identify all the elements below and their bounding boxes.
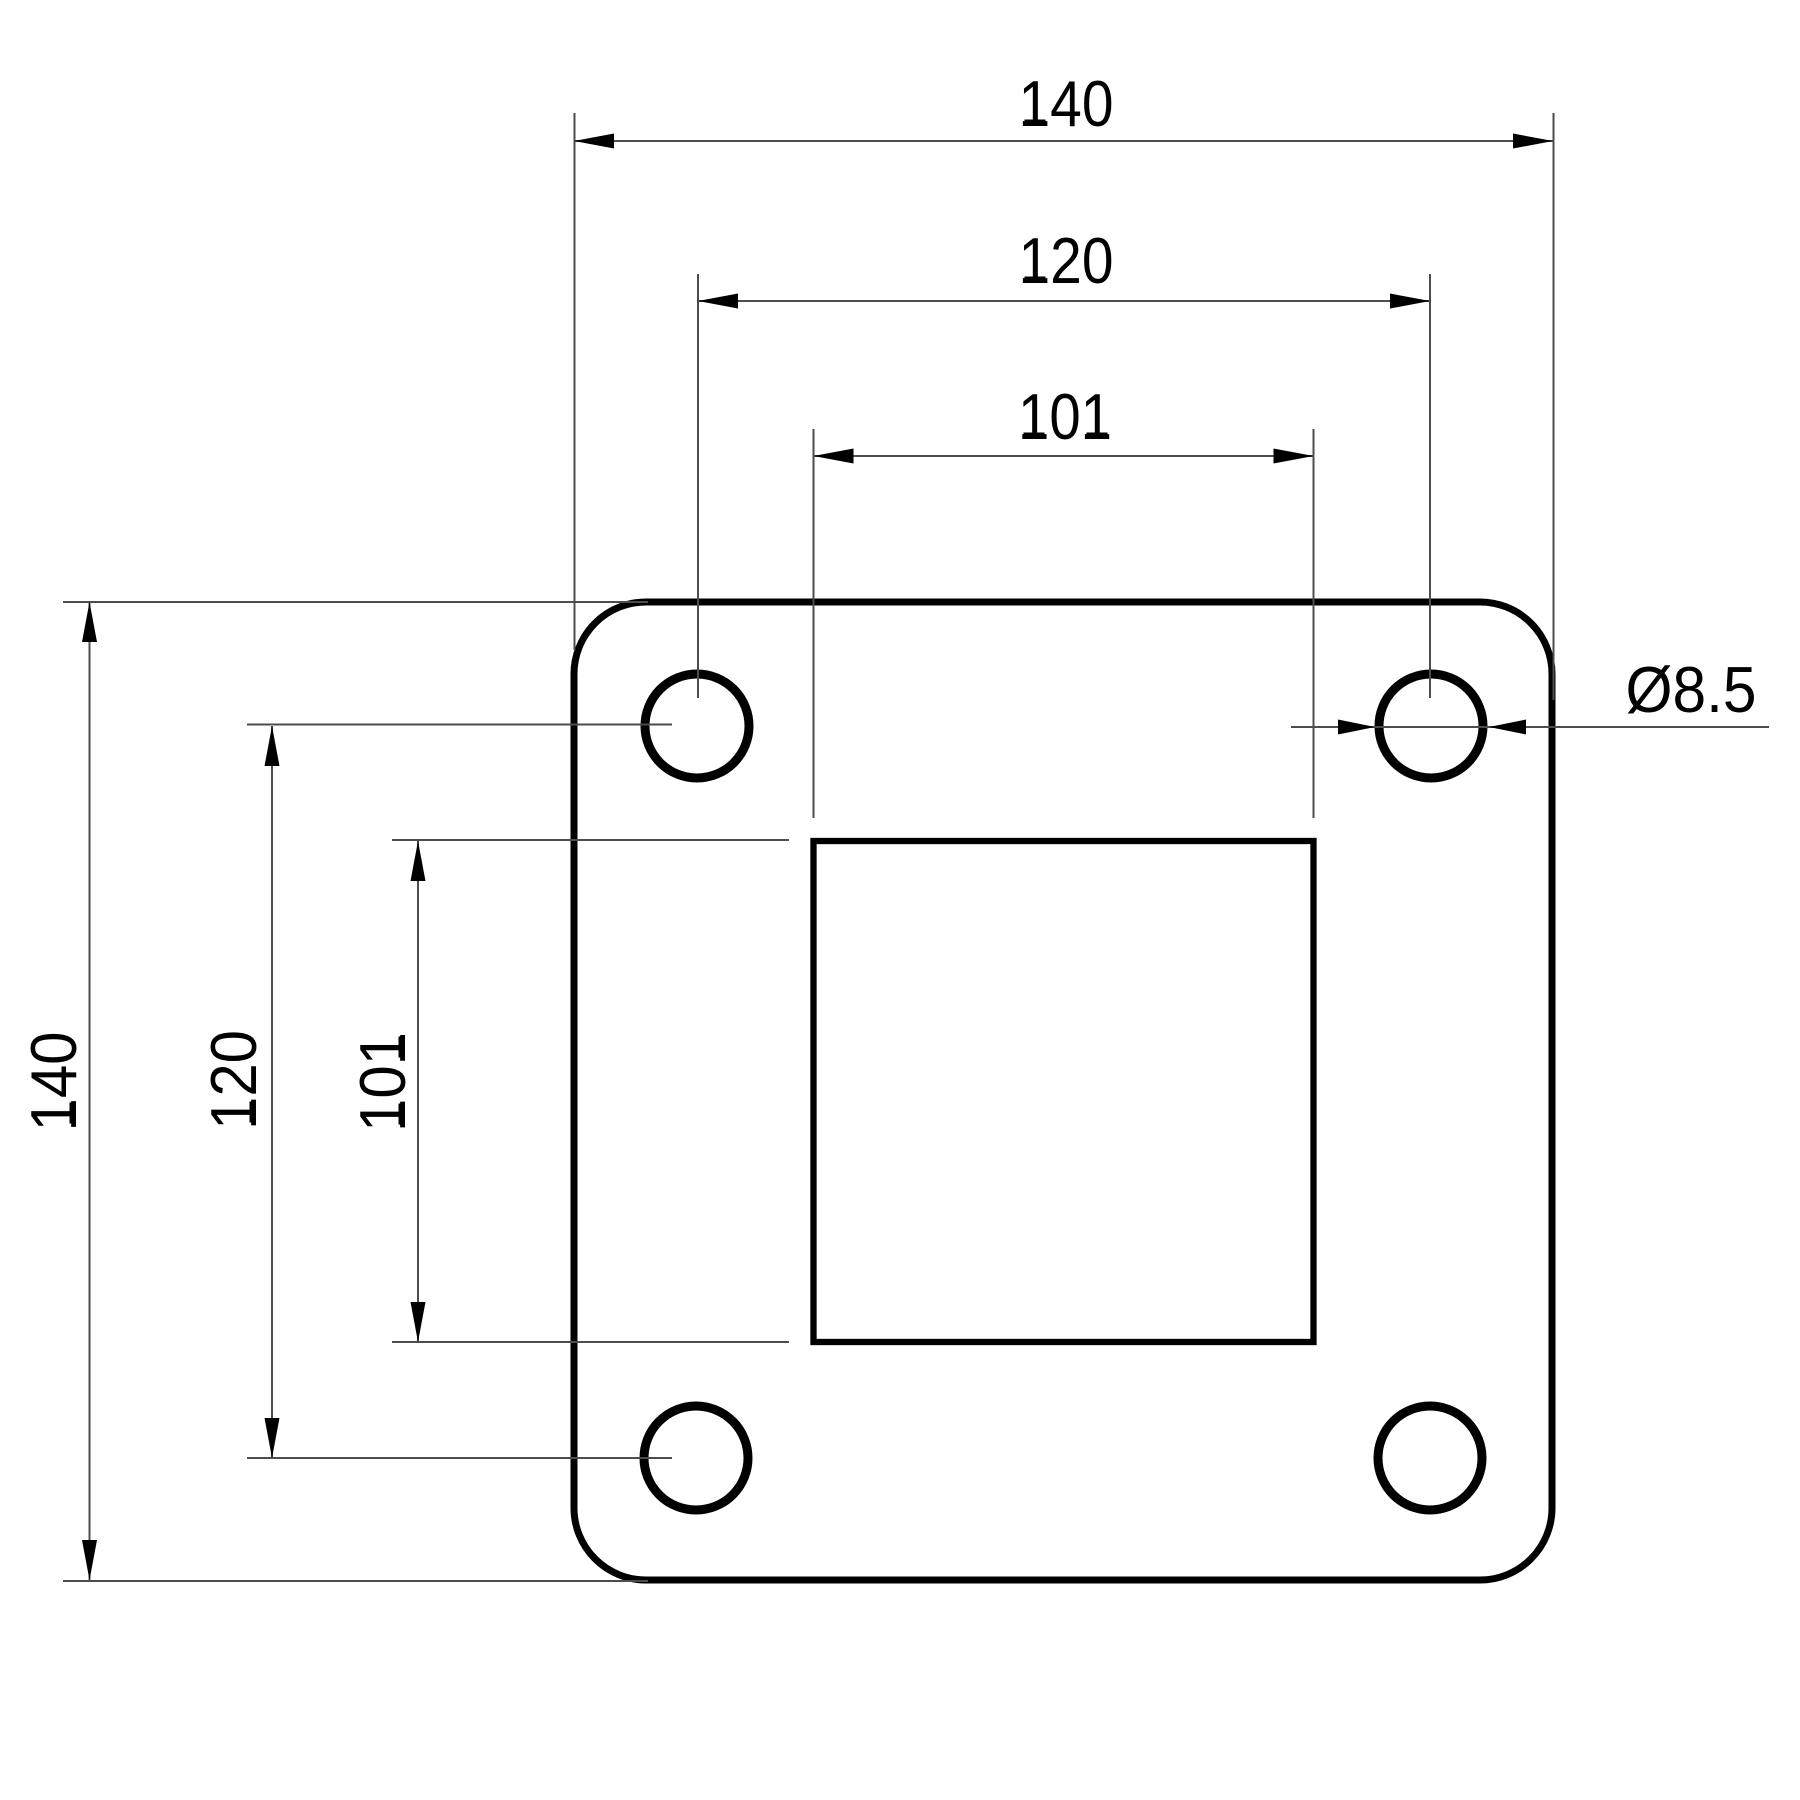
svg-text:Ø8.5: Ø8.5 bbox=[1626, 653, 1757, 726]
extension line left of dim 101 horizontal bbox=[813, 429, 815, 818]
extension line left of dim 120 horizontal bbox=[697, 274, 699, 698]
arrow left 120 horizontal bbox=[698, 294, 738, 309]
arrow top 120 vertical bbox=[265, 726, 280, 766]
svg-text:140: 140 bbox=[1019, 67, 1114, 140]
arrow right diameter 8.5 bbox=[1489, 720, 1526, 735]
extension line left of dim 140 horizontal bbox=[574, 113, 576, 650]
dimension line 101 horizontal bbox=[814, 455, 1314, 457]
arrow top 140 vertical bbox=[82, 602, 97, 642]
arrow left diameter 8.5 bbox=[1338, 720, 1375, 735]
bolt hole top-right bbox=[1379, 674, 1483, 778]
arrow right 140 horizontal bbox=[1513, 134, 1553, 149]
extension line top of dim 101 vertical bbox=[392, 839, 789, 841]
svg-text:140: 140 bbox=[17, 1032, 90, 1132]
dimension line 140 vertical bbox=[89, 602, 91, 1580]
svg-text:120: 120 bbox=[1019, 224, 1114, 297]
bolt hole bottom-right bbox=[1378, 1406, 1482, 1510]
dimension line 120 horizontal bbox=[698, 300, 1430, 302]
arrow right 101 horizontal bbox=[1274, 449, 1314, 464]
svg-text:101: 101 bbox=[346, 1032, 419, 1132]
arrow right 120 horizontal bbox=[1390, 294, 1430, 309]
square hole bbox=[814, 841, 1314, 1342]
dimension line 120 vertical bbox=[271, 726, 273, 1458]
bolt hole bottom-left bbox=[644, 1406, 748, 1510]
extension line right of dim 101 horizontal bbox=[1313, 429, 1315, 818]
dimension line 101 vertical bbox=[417, 841, 419, 1342]
svg-text:120: 120 bbox=[197, 1030, 270, 1130]
svg-text:101: 101 bbox=[1018, 380, 1112, 453]
extension line top of dim 120 vertical bbox=[247, 724, 672, 726]
extension line bottom of dim 140 vertical bbox=[63, 1580, 648, 1582]
leader line diameter 8.5 bbox=[1291, 726, 1769, 728]
arrow top 101 vertical bbox=[411, 841, 426, 881]
extension line top of dim 140 vertical bbox=[63, 601, 648, 603]
arrow left 140 horizontal bbox=[574, 134, 614, 149]
arrow bottom 120 vertical bbox=[265, 1418, 280, 1458]
arrow left 101 horizontal bbox=[814, 449, 854, 464]
extension line right of dim 140 horizontal bbox=[1553, 113, 1555, 700]
arrow bottom 140 vertical bbox=[82, 1540, 97, 1580]
arrow bottom 101 vertical bbox=[411, 1302, 426, 1342]
extension line bottom of dim 101 vertical bbox=[392, 1341, 789, 1343]
bolt hole top-left bbox=[645, 674, 749, 778]
dimension line 140 horizontal bbox=[574, 140, 1553, 142]
extension line bottom of dim 120 vertical bbox=[247, 1457, 672, 1459]
extension line right of dim 120 horizontal bbox=[1429, 274, 1431, 698]
plate outline bbox=[574, 602, 1552, 1580]
